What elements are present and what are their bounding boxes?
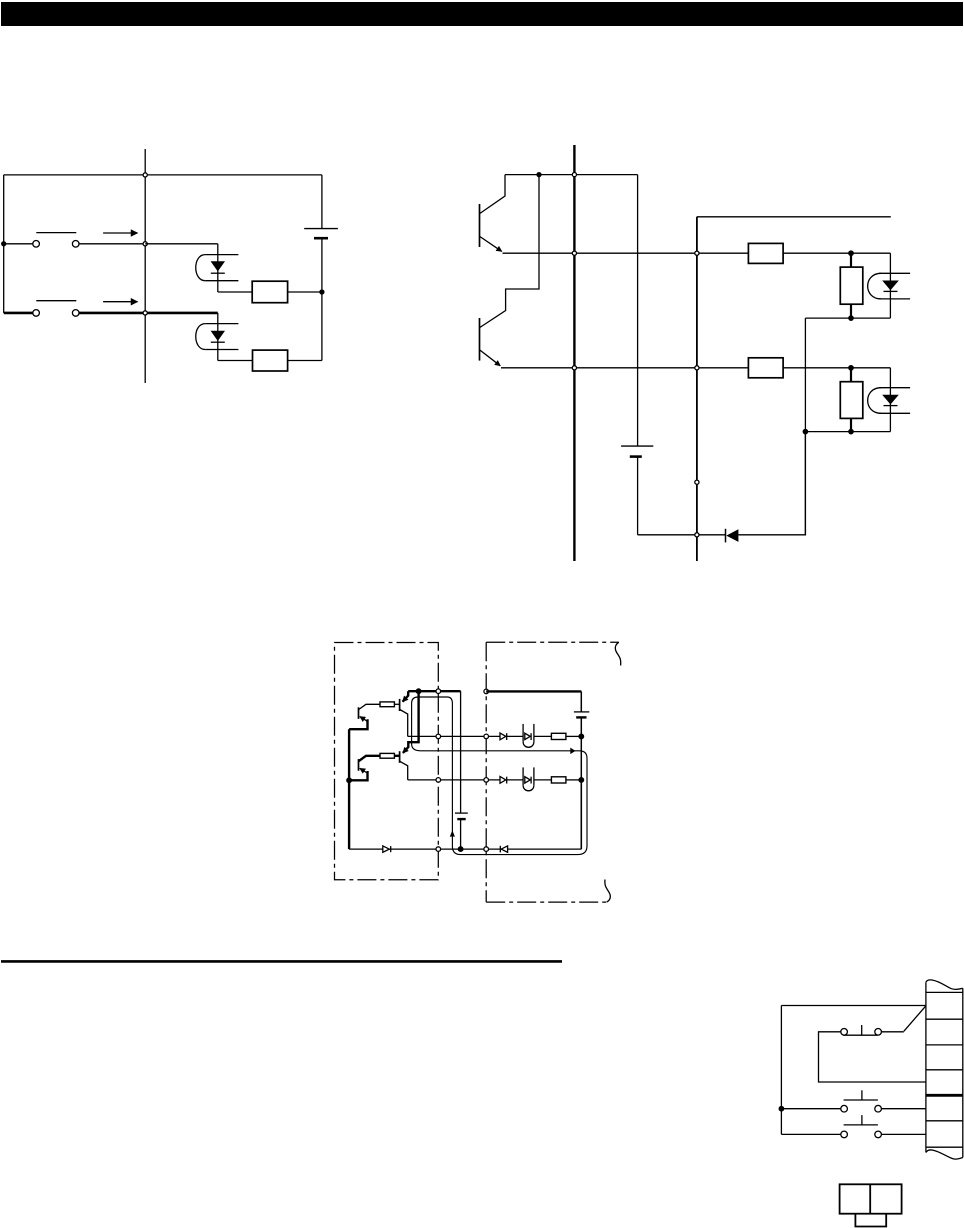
wire (PC2 to R2) <box>218 360 253 362</box>
diode D3 <box>500 777 523 784</box>
wire (top sensor supply) <box>697 216 891 218</box>
terminal divider 5 (bold) <box>926 1094 963 1097</box>
terminal block right edge <box>962 988 964 1157</box>
diode D1 <box>726 529 739 543</box>
current flow arrow (up) <box>450 830 455 836</box>
wire (row A right) <box>145 243 218 245</box>
wire (Q6 emitter, bold) <box>349 772 367 780</box>
wire (top run) <box>781 1005 926 1007</box>
wire (S3 right lead) <box>881 1031 903 1033</box>
wire (common return drop) <box>804 432 806 535</box>
switch S5 <box>841 1115 882 1138</box>
terminal divider 7 <box>926 1146 963 1148</box>
wire (row 1) <box>503 252 749 254</box>
bus line (vertical center) <box>144 149 146 383</box>
wire (row 1, upper output) <box>408 735 500 737</box>
terminal divider 2 <box>926 1018 963 1020</box>
terminal (right unit / top) <box>484 689 489 694</box>
terminal (right unit / row 1) <box>484 734 489 739</box>
node (collector tie) <box>537 173 541 177</box>
connector shell (two-gang) <box>840 1184 902 1213</box>
node (bus / row 1) <box>572 251 576 255</box>
wire (R3 to PC3) <box>783 252 890 254</box>
wire (row B left, bold) <box>4 312 33 315</box>
node (supply rail / row 2) <box>579 778 584 783</box>
wire (left vertical) <box>3 175 5 313</box>
wire (row 2, lower output) <box>408 779 500 781</box>
battery BT2 <box>621 175 653 535</box>
header black bar <box>1 2 963 26</box>
wire (R10 to supply rail) <box>566 779 581 781</box>
wire (row A left) <box>4 243 33 245</box>
wire (right vertical to battery) <box>321 175 323 228</box>
wire (internal top, bold) <box>408 690 460 692</box>
node (internal battery / bottom row) <box>458 847 463 852</box>
terminal block break (bottom) <box>926 1150 963 1159</box>
node (bus / top wire) <box>572 173 576 177</box>
wire (row 3 right) <box>881 1133 926 1135</box>
node (emitter tie) <box>416 689 421 694</box>
transistor Q6 (driver lower) <box>359 756 381 773</box>
wire (PC1 to R1) <box>218 291 252 293</box>
node (right bus pin upper) <box>695 480 699 484</box>
transistor Q2 <box>480 175 540 366</box>
terminal (left box / row 1) <box>436 734 441 739</box>
wire (top horizontal) <box>4 174 322 176</box>
node (left rail / row A junction) <box>2 242 6 246</box>
resistor R3 <box>748 243 783 263</box>
battery BT1 <box>304 229 338 239</box>
terminal divider 4 <box>926 1069 963 1071</box>
wire (row 2 left) <box>781 1108 840 1110</box>
resistor R5 (vertical) <box>840 253 863 318</box>
node (R3 / R5 tie) <box>849 251 853 255</box>
node (emitter rail junction) <box>347 778 352 783</box>
wire (bottom common) <box>638 534 726 536</box>
node (R4 / R6 tie) <box>849 366 853 370</box>
battery BT3 (internal) <box>455 691 468 849</box>
switch S4 <box>841 1090 882 1112</box>
transistor Q3 (PNP, output upper) <box>394 691 408 736</box>
optocoupler PC6 LED <box>523 767 551 790</box>
current direction arrow (row B) <box>103 301 137 303</box>
switch S2 contacts <box>33 301 79 317</box>
node (return corner) <box>803 429 807 433</box>
diode D2 <box>500 733 523 740</box>
terminal divider 6 <box>926 1120 963 1122</box>
section divider rule <box>1 960 562 963</box>
resistor R9 <box>551 733 566 739</box>
optocoupler PC3 LED <box>868 253 910 318</box>
PLC enclosure (dash-dot box) <box>335 643 439 880</box>
resistor R10 <box>551 777 566 783</box>
node (bus / row 2) <box>572 366 576 370</box>
wire (right rail below battery) <box>321 238 323 360</box>
resistor R2 <box>253 350 288 371</box>
terminal block break (top) <box>926 980 963 990</box>
wire (R4 to PC4) <box>783 367 890 369</box>
transistor Q1 <box>480 175 506 252</box>
bus line (right) <box>696 217 698 561</box>
wire (supply rail) <box>580 717 582 849</box>
external unit enclosure top edge (dash-dot) <box>486 641 619 643</box>
wire (return drop) <box>804 318 806 432</box>
optocoupler PC2 LED <box>196 313 239 361</box>
resistor R8 (base) <box>380 753 394 758</box>
connector tab <box>855 1214 886 1227</box>
resistor R6 (vertical) <box>840 368 863 432</box>
wire (row 2 right) <box>881 1108 926 1110</box>
transistor Q4 (PNP, output lower) <box>394 691 418 780</box>
wire (top, collector rail) <box>505 174 638 176</box>
terminal (left box / row 2) <box>436 778 441 783</box>
switch S3 (pushbutton) <box>841 1025 882 1035</box>
node (bus / row A) <box>143 242 147 246</box>
node (right bus / bottom common) <box>695 533 699 537</box>
wire (diode to return) <box>738 432 805 535</box>
current flow arrow (right) <box>570 748 575 755</box>
diode D4 (inside PLC) <box>383 846 391 852</box>
external unit enclosure bottom edge (dash-dot) <box>486 901 607 903</box>
terminal block left edge <box>925 982 927 1152</box>
wire (Q5 emitter, bold) <box>349 720 367 729</box>
wire (row 2) <box>501 367 748 369</box>
terminal (right unit / row 2) <box>484 778 489 783</box>
wire (S3 left loop) <box>819 1032 926 1082</box>
terminal divider 3 <box>926 1044 963 1046</box>
resistor R7 (base) <box>380 702 394 707</box>
wire (R1 to right rail) <box>288 291 322 293</box>
wire (bottom common row) <box>349 848 581 850</box>
current direction arrow (row A) <box>103 232 137 234</box>
wire (row B right, bold) <box>79 312 218 315</box>
node (return / R6) <box>849 429 853 433</box>
break squiggle (bottom right) <box>605 880 610 903</box>
battery BT4 (external) <box>574 691 589 717</box>
node (supply rail / row 1) <box>579 734 584 739</box>
terminal (left box / top) <box>436 689 441 694</box>
wire (row 2 return) <box>805 431 890 433</box>
switch S1 contacts <box>33 233 79 248</box>
wire (R2 to right rail) <box>288 360 322 362</box>
break squiggle (top right) <box>615 642 620 665</box>
wire (supply rail corner up from bottom row) <box>580 780 582 849</box>
terminal (left box / bottom) <box>436 847 441 852</box>
optocoupler PC4 LED <box>868 368 910 432</box>
optocoupler PC5 LED <box>523 724 551 747</box>
resistor R4 <box>748 358 783 378</box>
transistor Q5 (driver upper) <box>359 704 381 721</box>
node (R1 / right rail) <box>320 290 324 294</box>
wire (row 1 return) <box>805 317 890 319</box>
optocoupler PC1 LED <box>196 244 239 292</box>
bus line (left, bold) <box>573 145 575 561</box>
wire (common emitter rail, bold) <box>348 729 350 849</box>
wire (row 3 left) <box>781 1133 840 1135</box>
wire (external supply top, bold) <box>486 690 581 692</box>
terminal (right unit / bottom) <box>484 847 489 852</box>
external unit enclosure left edge (dash-dot) <box>485 642 487 902</box>
node (return / R5) <box>849 316 853 320</box>
diode D5 <box>500 846 507 853</box>
wire (row A middle) <box>79 243 145 245</box>
node (bus/top wire) <box>143 173 147 177</box>
wire (R9 to supply rail) <box>566 735 581 737</box>
wire (diagonal to terminal) <box>904 1006 926 1032</box>
terminal divider 1 <box>926 991 963 993</box>
node (left rail / row 2) <box>779 1107 783 1111</box>
node (right bus / row 2) <box>695 366 699 370</box>
current flow loop (rounded) <box>412 697 587 855</box>
wire (left drop) <box>780 1006 782 1135</box>
node (bus / row B) <box>143 311 147 315</box>
node (right bus / row 1) <box>695 251 699 255</box>
resistor R1 <box>252 281 287 303</box>
